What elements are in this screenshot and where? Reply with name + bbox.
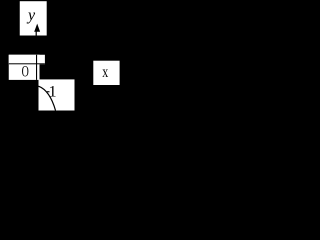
svg-text:1: 1 xyxy=(49,82,57,101)
curve xyxy=(39,86,56,110)
svg-text:x: x xyxy=(102,64,108,81)
minus sign of -1 xyxy=(47,91,50,92)
x-axis line xyxy=(9,63,45,64)
svg-text:O: O xyxy=(22,63,29,80)
label box O lower part xyxy=(9,55,40,80)
label box O upper part xyxy=(9,55,45,65)
y-axis line xyxy=(36,55,37,80)
y-axis stem in y box xyxy=(36,31,37,35)
label box x xyxy=(93,61,119,85)
y-axis arrowhead xyxy=(34,24,40,32)
svg-text:y: y xyxy=(26,7,36,24)
label box -1 xyxy=(39,79,75,110)
background xyxy=(0,0,123,122)
label box y xyxy=(20,1,47,35)
